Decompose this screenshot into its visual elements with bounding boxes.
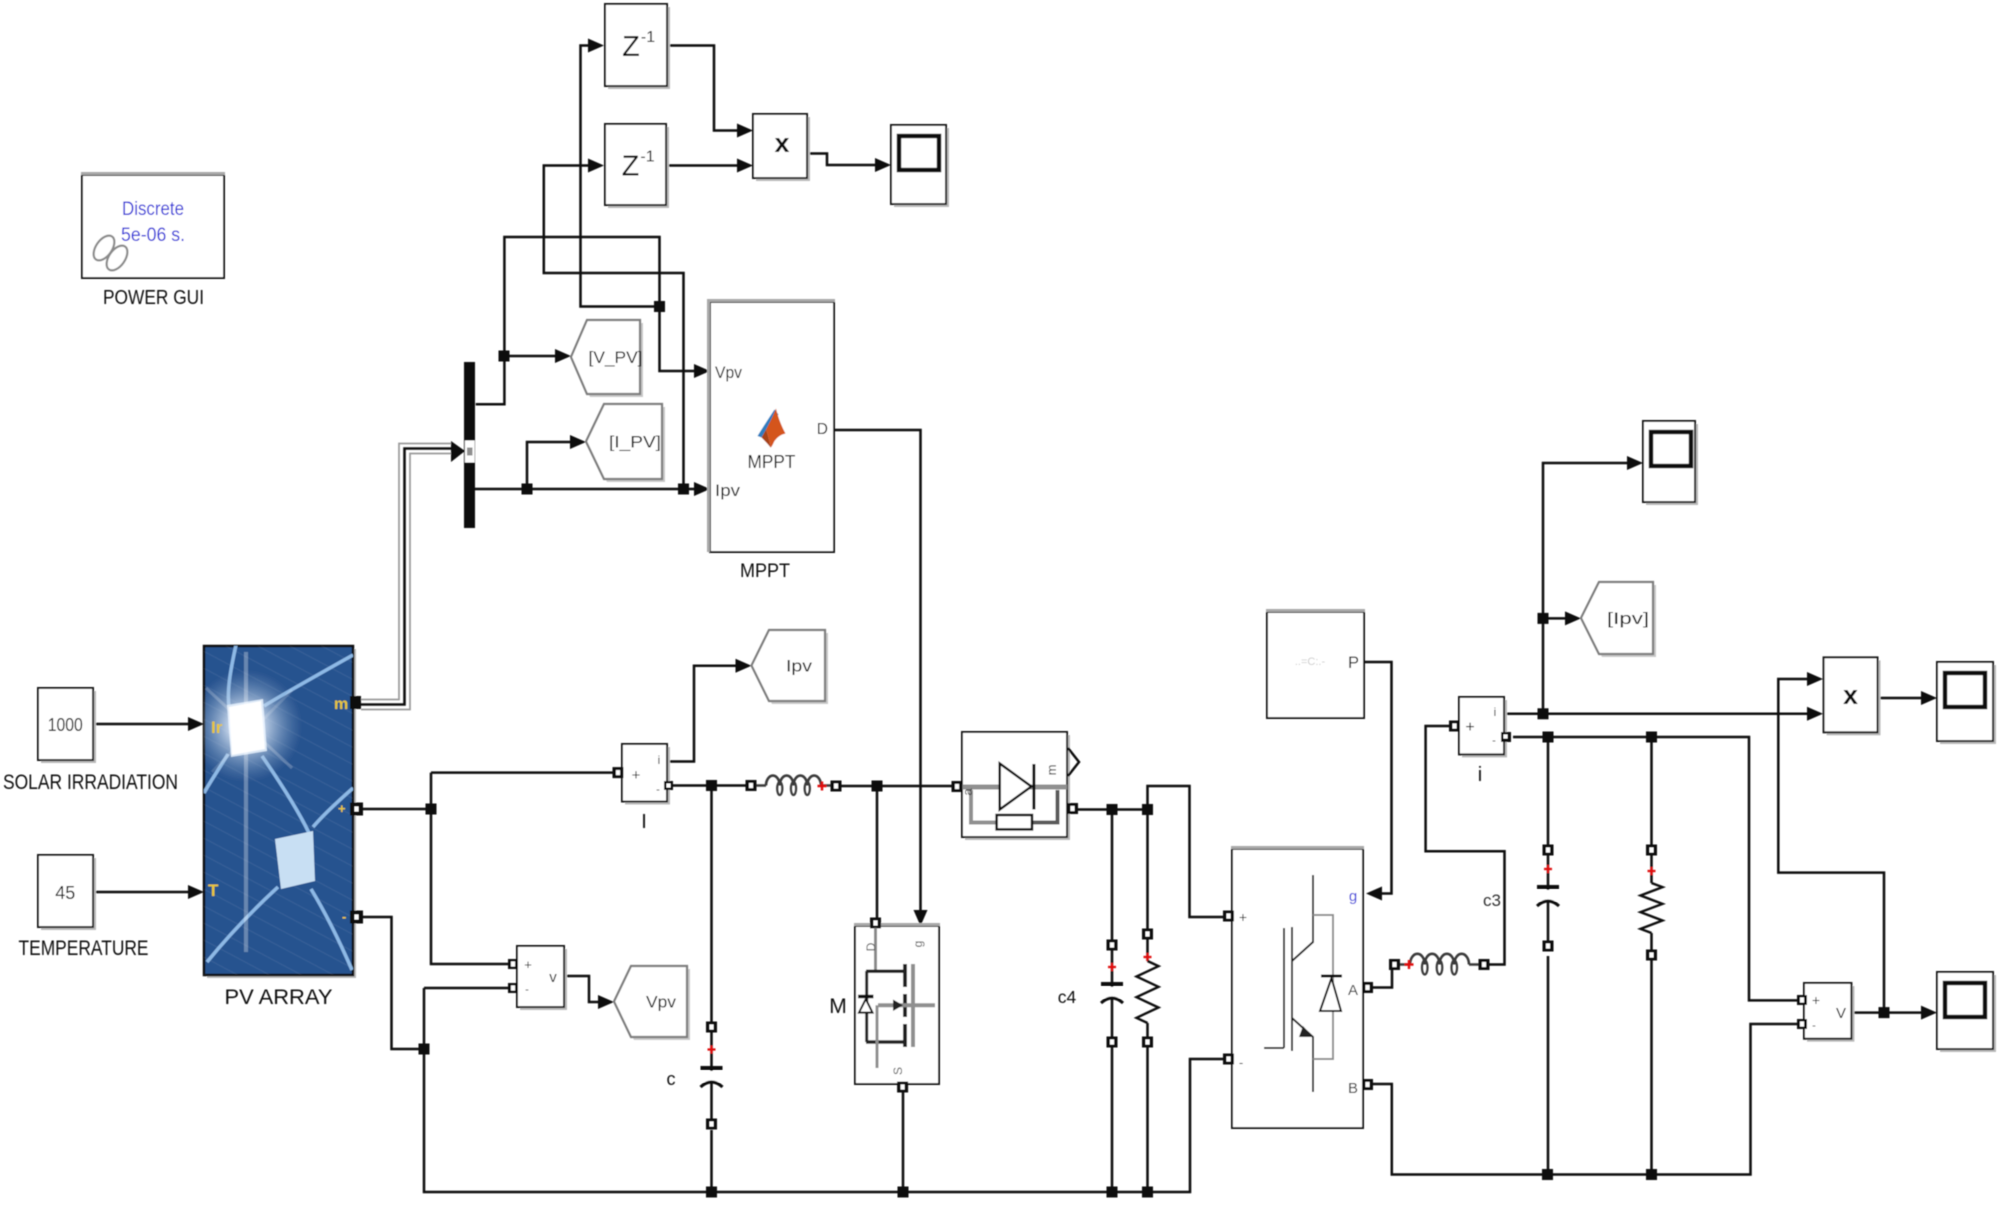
svg-text:+: + [1239,909,1247,925]
svg-text:+: + [632,767,641,784]
svg-text:T: T [208,881,219,900]
svg-text:..=C:.-: ..=C:.- [1295,656,1326,668]
svg-text:D: D [817,421,828,438]
svg-text:[I_PV]: [I_PV] [609,433,661,452]
svg-text:Vpv: Vpv [715,363,742,382]
svg-text:Discrete: Discrete [122,199,184,220]
svg-text:S: S [891,1067,905,1075]
svg-text:-1: -1 [641,29,655,46]
svg-text:i: i [658,753,661,767]
svg-text:SOLAR IRRADIATION: SOLAR IRRADIATION [3,771,178,794]
svg-text:i: i [1494,705,1497,719]
svg-text:MPPT: MPPT [748,452,796,472]
svg-text:D: D [864,942,878,951]
svg-text:-: - [656,784,660,796]
svg-text:v: v [549,969,557,986]
svg-text:I: I [641,811,647,833]
svg-text:Ipv: Ipv [715,481,741,500]
svg-text:M: M [829,995,847,1018]
svg-text:Ipv: Ipv [786,657,813,676]
svg-text:Ir: Ir [211,718,223,737]
svg-text:PV ARRAY: PV ARRAY [225,985,333,1009]
svg-text:c4: c4 [1058,987,1077,1007]
svg-text:P: P [1348,654,1359,672]
svg-text:Z: Z [622,151,640,183]
svg-text:i: i [1478,764,1482,786]
svg-text:V: V [1836,1005,1846,1022]
svg-text:-1: -1 [640,149,654,166]
svg-text:m: m [334,696,348,713]
svg-text:+: + [1465,719,1474,736]
svg-text:MPPT: MPPT [740,561,790,582]
svg-text:1000: 1000 [48,715,83,735]
svg-text:x: x [1843,680,1858,710]
svg-text:x: x [774,128,789,158]
svg-text:[V_PV]: [V_PV] [589,348,643,367]
svg-text:POWER GUI: POWER GUI [103,287,204,309]
svg-text:Vpv: Vpv [646,993,677,1012]
svg-text:Z: Z [622,31,640,63]
svg-text:-: - [1812,1020,1816,1032]
svg-text:+: + [524,957,532,972]
svg-text:[Ipv]: [Ipv] [1607,609,1649,628]
svg-text:B: B [1348,1080,1358,1097]
svg-text:+: + [1812,992,1820,1008]
svg-text:+: + [338,801,346,816]
svg-text:A: A [1348,982,1358,999]
svg-text:c3: c3 [1483,891,1501,910]
svg-text:5e-06 s.: 5e-06 s. [121,225,185,246]
svg-text:m: m [1044,765,1059,776]
svg-text:TEMPERATURE: TEMPERATURE [19,937,149,960]
svg-text:-: - [525,984,529,996]
svg-text:-: - [1239,1055,1243,1070]
svg-text:-: - [342,909,346,924]
svg-text:-: - [1492,735,1496,747]
svg-text:45: 45 [55,883,75,903]
svg-text:g: g [911,941,925,948]
svg-text:c: c [667,1069,676,1089]
svg-text:g: g [1349,888,1357,905]
